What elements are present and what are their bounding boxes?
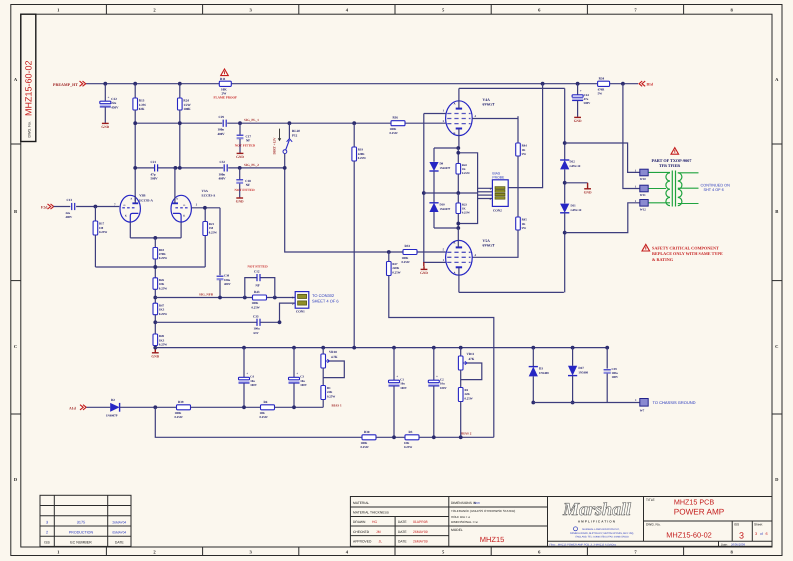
resistor R18 body: [153, 248, 158, 260]
wire V3B cathode lead: [129, 222, 131, 238]
svg-text:K: K: [453, 132, 455, 135]
wire SIG_PL_2 b: [158, 167, 223, 169]
svg-text:GND: GND: [151, 354, 159, 358]
wire: [460, 402, 462, 438]
svg-text:K: K: [183, 214, 185, 217]
svg-text:C: C: [775, 344, 778, 349]
junction D17 bottom: [571, 401, 575, 405]
svg-text:MARSHALL AMPLIFICATION PLC,: MARSHALL AMPLIFICATION PLC,: [582, 528, 620, 531]
svg-text:5W: 5W: [598, 92, 603, 96]
wire: [104, 84, 106, 102]
svg-text:POWER AMP: POWER AMP: [674, 507, 725, 516]
capacitor C39 plates: [604, 369, 611, 371]
junction ground bus: [352, 346, 356, 350]
wire: [219, 208, 221, 275]
svg-text:100K: 100K: [183, 107, 191, 111]
svg-text:MHZ15: MHZ15: [480, 535, 505, 544]
wire SIG_PL_1 to V4A grid: [405, 122, 446, 124]
svg-text:0.25W: 0.25W: [252, 305, 260, 309]
junction HT rail: [621, 82, 625, 86]
svg-text:D2: D2: [111, 398, 115, 402]
svg-text:C12: C12: [254, 269, 260, 273]
svg-text:0.25W: 0.25W: [175, 415, 183, 419]
wire: [606, 373, 608, 402]
diode D12 symbol: [560, 160, 569, 169]
svg-text:D10: D10: [440, 202, 446, 206]
junction HT rail: [178, 82, 182, 86]
svg-text:PRODUCTION: PRODUCTION: [69, 531, 94, 535]
svg-text:DENBIGH ROAD, BLETCHLEY, MILTO: DENBIGH ROAD, BLETCHLEY, MILTON KEYNES, …: [570, 532, 634, 535]
ground stub V5A: [423, 262, 425, 266]
junction SIG_PL_2: [133, 166, 137, 170]
resistor R11 body: [219, 81, 231, 86]
drawing number box: [21, 14, 36, 141]
svg-text:26MAY04: 26MAY04: [112, 520, 126, 524]
svg-text:C29: C29: [219, 115, 225, 119]
wire probe pin manifold: [477, 188, 479, 198]
svg-text:HOLE DIA + ⌀: HOLE DIA + ⌀: [451, 515, 470, 519]
junction relay to SIG_PL_2: [283, 166, 287, 170]
junction ground bus: [432, 346, 436, 350]
capacitor C13 plates: [71, 203, 73, 210]
svg-text:Sheet: Sheet: [754, 523, 762, 527]
terminal W11: [640, 185, 648, 192]
svg-text:FLAME PROOF: FLAME PROOF: [214, 95, 238, 99]
wire: [532, 376, 534, 402]
pentode V4A (6V6GT): [446, 101, 473, 136]
svg-text:CON2: CON2: [493, 208, 502, 212]
svg-text:D17: D17: [578, 366, 584, 370]
svg-text:+: +: [246, 372, 248, 376]
svg-text:1N5408: 1N5408: [578, 371, 588, 375]
wire sense mid bus: [424, 192, 478, 194]
svg-text:A: A: [176, 198, 178, 201]
svg-text:5W: 5W: [522, 152, 527, 156]
wire: [433, 348, 435, 381]
wire HT rail right: [231, 83, 638, 85]
wire V5A plate lead: [458, 267, 460, 292]
svg-text:GND: GND: [236, 200, 244, 204]
connector CON2 BIAS PROBE: [492, 180, 508, 207]
wire: [433, 171, 435, 193]
capacitor C1 plates: [389, 380, 400, 383]
svg-text:63V: 63V: [254, 331, 260, 335]
wire: [564, 88, 566, 159]
wire cathode bus V3B-V3A: [130, 237, 181, 239]
wire: [572, 348, 574, 366]
svg-text:CHECKED: CHECKED: [353, 530, 370, 534]
junction C4 bottom: [242, 405, 246, 409]
svg-text:MHZ15-60-02: MHZ15-60-02: [666, 530, 712, 539]
transformer secondary winding: [678, 173, 682, 206]
svg-text:PREAMP_HT: PREAMP_HT: [53, 82, 78, 87]
diode D9 symbol: [429, 162, 438, 171]
wire: [243, 383, 245, 407]
wire: [457, 148, 459, 164]
wire SIG_PL_2 c: [228, 167, 285, 169]
wire B+ to W11: [623, 84, 640, 189]
svg-text:DATE: DATE: [115, 541, 125, 545]
junction C33 wire left: [153, 320, 157, 324]
svg-text:4.7K: 4.7K: [331, 355, 338, 359]
svg-text:0.25W: 0.25W: [361, 445, 369, 449]
wire CON2 to HT rail: [508, 84, 542, 188]
svg-text:PROBE: PROBE: [492, 176, 505, 180]
svg-text:GP02-30: GP02-30: [570, 164, 581, 168]
svg-text:DIMENSIONS IN: DIMENSIONS IN: [451, 501, 477, 505]
svg-text:1N4007P: 1N4007P: [106, 413, 118, 417]
title block: [350, 497, 772, 547]
resistor R33 body: [403, 250, 417, 255]
svg-text:R30: R30: [364, 430, 370, 434]
svg-text:6: 6: [766, 532, 768, 536]
svg-text:ISS: ISS: [734, 523, 739, 527]
svg-text:3175: 3175: [77, 520, 85, 524]
resistor R13 body: [133, 98, 138, 110]
svg-text:Date:: Date:: [721, 542, 728, 546]
wire V3B plate lead: [134, 196, 136, 203]
junction SIG_PL_1: [352, 121, 356, 125]
wire: [457, 193, 459, 203]
wire: [517, 156, 519, 217]
svg-text:NOT FITTED: NOT FITTED: [235, 188, 256, 192]
capacitor C30 plates: [217, 275, 224, 277]
svg-text:TFR TFIER: TFR TFIER: [659, 163, 680, 168]
junction R18/R26: [153, 265, 157, 269]
wire SIG_NFB b: [267, 297, 296, 299]
svg-text:3: 3: [46, 520, 48, 524]
wire: [204, 208, 206, 222]
junction SIG_PL_1: [288, 121, 292, 125]
resistor R2 body: [458, 388, 463, 402]
wire V3A cathode lead: [180, 222, 182, 238]
warning triangle safety note: [642, 244, 650, 251]
svg-text:+: +: [396, 375, 398, 379]
svg-text:TITLE: TITLE: [646, 498, 655, 502]
svg-text:K: K: [125, 214, 127, 217]
wire: [433, 148, 435, 162]
wire to chassis ground terminal: [533, 402, 640, 404]
wire: [239, 168, 241, 179]
junction R17 tap: [94, 205, 98, 209]
junction ground bus: [321, 346, 325, 350]
svg-text:MHZ15 PCB: MHZ15 PCB: [674, 498, 715, 507]
wire cathode bottom bus: [434, 227, 458, 229]
junction OT centre ground: [563, 181, 567, 185]
terminal W12: [640, 200, 648, 207]
wire R4 to BIAS1: [275, 406, 324, 408]
wire C13 to V3B grid: [76, 206, 119, 208]
svg-text:0.25W: 0.25W: [99, 230, 107, 234]
svg-text:0.25W: 0.25W: [465, 396, 473, 400]
svg-text:DWG. No.: DWG. No.: [28, 121, 32, 137]
svg-text:MATERIAL: MATERIAL: [353, 501, 369, 505]
wire VR10 wiper loop: [323, 361, 344, 378]
wire V5A plate to OT: [459, 291, 564, 293]
svg-text:VR11: VR11: [467, 352, 475, 356]
wire R33 to V5A grid: [417, 251, 446, 253]
wire R39 to R4: [191, 406, 261, 408]
svg-text:DIMENSIONAL ++⌀: DIMENSIONAL ++⌀: [451, 520, 478, 524]
svg-text:SHT 4 OF 6: SHT 4 OF 6: [704, 188, 724, 192]
wire: [154, 315, 156, 334]
svg-text:400V: 400V: [224, 282, 232, 286]
capacitor C22 plates: [100, 101, 111, 104]
svg-text:ECC83-A: ECC83-A: [202, 194, 216, 198]
wire R27 to BIAS2: [389, 276, 494, 438]
wire cathode top bus: [434, 147, 458, 149]
svg-text:A: A: [130, 198, 132, 201]
svg-text:NF: NF: [246, 139, 250, 143]
svg-text:0.25W: 0.25W: [209, 230, 217, 234]
svg-text:26MAY09: 26MAY09: [413, 539, 428, 543]
svg-text:450V: 450V: [111, 106, 119, 110]
wire: [239, 183, 241, 197]
wire A1d to D2: [87, 406, 111, 408]
wire: [393, 348, 395, 381]
wire HT rail left: [85, 83, 219, 85]
svg-text:R16: R16: [393, 115, 399, 119]
svg-text:22u: 22u: [111, 101, 116, 105]
wire: [154, 346, 156, 348]
svg-text:0.25W: 0.25W: [159, 343, 167, 347]
svg-text:B1d: B1d: [647, 83, 654, 87]
transformer primary winding: [666, 173, 670, 206]
wire: [94, 235, 96, 267]
wire BIAS2 left: [155, 407, 362, 437]
wire V4A plate to OT: [459, 87, 565, 89]
triode V3B (ECC83): [120, 195, 140, 222]
svg-text:0.25W: 0.25W: [159, 312, 167, 316]
junction R2 bottom: [459, 435, 463, 439]
svg-text:RL20: RL20: [292, 129, 300, 133]
wire: [322, 348, 324, 354]
capacitor C17 plates: [237, 134, 244, 136]
svg-text:C21: C21: [151, 160, 157, 164]
svg-text:D3: D3: [539, 367, 543, 371]
svg-text:V3A: V3A: [202, 189, 209, 193]
svg-text:0.25W: 0.25W: [462, 171, 470, 175]
svg-text:26MAY09: 26MAY09: [413, 530, 428, 534]
svg-text:+: +: [296, 372, 298, 376]
svg-text:B: B: [14, 209, 17, 214]
junction C2 bottom: [432, 435, 436, 439]
wire: [393, 386, 395, 437]
junction V4A cathode: [456, 146, 460, 150]
resistor R34 body: [598, 81, 610, 86]
svg-text:5W: 5W: [522, 226, 527, 230]
wire: [243, 348, 245, 378]
wire: [154, 259, 156, 278]
svg-text:AMPLIFICATION: AMPLIFICATION: [578, 519, 616, 523]
svg-text:ECC83-A: ECC83-A: [139, 198, 153, 202]
wire SIG_PL_2 a: [135, 167, 154, 169]
wire: [94, 207, 96, 222]
wire: [388, 252, 390, 262]
junction W10 branch: [563, 141, 567, 145]
junction V3A grid: [203, 206, 207, 210]
wire: [239, 123, 241, 134]
wire VR11 wiper loop: [461, 363, 482, 380]
svg-text:3: 3: [755, 532, 757, 536]
resistor R24 body: [178, 98, 183, 110]
svg-text:CON1: CON1: [296, 310, 305, 314]
wire V4A cathode lead: [458, 129, 460, 149]
resistor R26 body: [153, 278, 158, 290]
wire: [606, 348, 608, 369]
svg-text:A: A: [454, 271, 456, 274]
svg-text:NOT FITTED: NOT FITTED: [235, 144, 256, 148]
junction R27 on V5A grid wire: [387, 250, 391, 254]
svg-text:01APR08: 01APR08: [413, 520, 428, 524]
potentiometer VR11 body: [458, 356, 463, 370]
svg-text:SIG_PL_2: SIG_PL_2: [244, 163, 259, 167]
triode V3A (ECC83): [171, 195, 191, 222]
svg-text:DATE: DATE: [398, 539, 407, 543]
wire: [532, 348, 534, 367]
svg-text:100V: 100V: [300, 383, 308, 387]
svg-text:0.25W: 0.25W: [402, 260, 410, 264]
junction BIAS feed split: [153, 405, 157, 409]
svg-text:C13: C13: [67, 198, 73, 202]
warning triangle above R11: [221, 69, 229, 76]
wire: [353, 123, 355, 147]
wire: [577, 84, 579, 95]
wire D11 to V5A plate bus: [564, 213, 566, 293]
wire: [154, 289, 156, 303]
wire: [322, 400, 324, 408]
svg-text:DATE: DATE: [398, 520, 407, 524]
wire R45 to V5A screen: [472, 230, 518, 257]
wire ground bus: [155, 347, 607, 349]
svg-text:JM: JM: [376, 530, 381, 534]
junction HT rail: [103, 82, 107, 86]
junction probe tap bottom: [456, 222, 460, 226]
potentiometer VR10 body: [321, 354, 326, 368]
svg-text:& RATING: & RATING: [652, 257, 674, 262]
svg-text:D11: D11: [571, 204, 577, 208]
relay RL20 pole stub: [284, 154, 286, 168]
relay coil actuation arrow DIRT +12V: [279, 129, 281, 139]
wire to W12: [565, 203, 640, 233]
wire R3 to BIAS2 end: [419, 436, 494, 438]
junction cathode bus: [153, 236, 157, 240]
wire cathode return bus: [95, 266, 205, 268]
wire C33 net b: [260, 321, 279, 323]
wire VR10 to R1: [322, 368, 324, 386]
wire: [460, 348, 462, 356]
wire: [433, 386, 435, 437]
svg-text:MATERIAL THICKNESS: MATERIAL THICKNESS: [353, 510, 390, 514]
svg-text:GP02-30: GP02-30: [571, 208, 582, 212]
svg-text:GND: GND: [574, 119, 582, 123]
wire V4A plate lead: [458, 88, 460, 108]
wire SIG_PL_2 drop to V5A grid: [285, 168, 403, 252]
svg-text:0.25W: 0.25W: [159, 256, 167, 260]
terminal W7: [640, 399, 648, 407]
svg-text:C33: C33: [253, 314, 259, 318]
junction ground bus: [292, 346, 296, 350]
svg-text:C32: C32: [220, 160, 226, 164]
svg-text:B: B: [775, 209, 778, 214]
capacitor C33 plates: [256, 319, 258, 326]
junction C3 bottom: [292, 405, 296, 409]
capacitor C32 plates: [223, 164, 225, 171]
junction R18 bottom: [153, 265, 157, 269]
svg-text:D9: D9: [440, 162, 444, 166]
junction ground bus: [392, 346, 396, 350]
svg-text:MHZ15-60-02: MHZ15-60-02: [24, 60, 34, 116]
svg-text:ENGLAND. TEL: 01908 375411 FAX: ENGLAND. TEL: 01908 375411 FAX: 01908 37…: [575, 535, 629, 538]
svg-text:SAFETY CRITICAL COMPONENT: SAFETY CRITICAL COMPONENT: [652, 245, 719, 250]
wire V3A grid to R21/C30: [191, 207, 220, 209]
svg-text:47K: 47K: [469, 357, 475, 361]
svg-text:VR10: VR10: [329, 350, 337, 354]
relay RL20 fixed contact stub: [288, 123, 290, 138]
svg-text:ISS: ISS: [44, 541, 50, 545]
wire R21 bottom: [204, 236, 206, 268]
wire: [293, 348, 295, 378]
wire V4A-V5A left rail: [424, 114, 446, 263]
wire: [565, 182, 588, 184]
ground below C18: [239, 196, 241, 199]
svg-text:C22: C22: [111, 97, 117, 101]
wire V5A cathode lead: [457, 228, 459, 247]
capacitor C3 plates: [289, 377, 300, 380]
junction mid bus: [456, 191, 460, 195]
junction SIG_NFB left: [153, 296, 157, 300]
wire SIG_PL_1 left: [135, 122, 222, 124]
wire D12 to D11: [564, 169, 566, 203]
svg-text:SHEET 4 OF 6: SHEET 4 OF 6: [312, 298, 339, 303]
svg-text:W10: W10: [640, 177, 647, 181]
svg-text:R33: R33: [405, 244, 411, 248]
svg-text:DIRT +12V: DIRT +12V: [272, 137, 276, 154]
wire C12 loop right: [260, 278, 275, 298]
junction SIG_PL_2: [178, 166, 182, 170]
capacitor C21 plates: [154, 164, 156, 171]
svg-text:DWG. No.: DWG. No.: [646, 523, 661, 527]
wire to bias probe pin4: [458, 199, 492, 224]
svg-text:W7: W7: [640, 408, 645, 412]
svg-text:MODEL: MODEL: [451, 528, 463, 532]
svg-text:GND: GND: [101, 125, 109, 129]
svg-text:100V: 100V: [612, 375, 620, 379]
svg-text:+: +: [580, 89, 582, 93]
wire VR11 to R2: [460, 370, 462, 388]
svg-text:NOT FITTED: NOT FITTED: [248, 264, 269, 268]
svg-text:0.25W: 0.25W: [390, 131, 398, 135]
ground below C17: [239, 152, 241, 155]
svg-text:K: K: [453, 241, 455, 244]
svg-text:BIAS 2: BIAS 2: [461, 431, 472, 435]
wire SIG_NFB a: [155, 297, 252, 299]
ground below C22: [104, 122, 106, 125]
svg-text:1N5408: 1N5408: [539, 371, 549, 375]
diode D11 symbol: [560, 204, 569, 213]
junction ground bus: [459, 346, 463, 350]
svg-text:0.25W: 0.25W: [358, 156, 366, 160]
resistor R3 body: [405, 435, 419, 440]
resistor R44 body: [516, 143, 521, 156]
junction SIG_NFB: [243, 296, 247, 300]
svg-text:100V: 100V: [250, 383, 258, 387]
svg-text:0.25W: 0.25W: [462, 210, 470, 214]
svg-text:6V6GT: 6V6GT: [483, 244, 495, 248]
junction ground bus: [605, 346, 609, 350]
svg-text:APPROVED: APPROVED: [353, 539, 372, 543]
resistor R47 body: [153, 303, 158, 315]
